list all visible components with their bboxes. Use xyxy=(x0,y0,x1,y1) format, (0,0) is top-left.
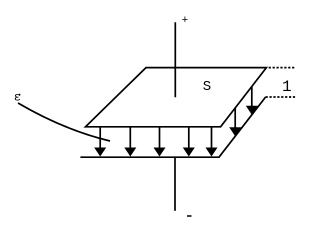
dashed extension top xyxy=(269,67,296,69)
top plate xyxy=(86,68,267,127)
svg-text:+: + xyxy=(182,15,189,27)
wire epsilon pointer curve xyxy=(18,103,110,141)
field arrow E5 xyxy=(206,127,218,157)
bottom plate xyxy=(80,97,265,157)
wire top lead xyxy=(174,22,176,97)
field arrow E7 right face xyxy=(229,108,241,136)
svg-text:ε: ε xyxy=(14,91,21,105)
label epsilon prime tick xyxy=(18,94,20,96)
field arrow E6 right face xyxy=(246,87,258,115)
field arrow E2 xyxy=(124,127,136,157)
wire bottom lead xyxy=(174,158,176,211)
field arrow E3 xyxy=(154,127,166,157)
svg-text:S: S xyxy=(203,79,211,95)
dashed extension bottom xyxy=(266,96,297,98)
svg-text:1: 1 xyxy=(282,78,292,96)
field arrow E1 xyxy=(94,127,106,157)
label minus terminal xyxy=(187,215,192,217)
field arrow E4 xyxy=(183,127,195,157)
